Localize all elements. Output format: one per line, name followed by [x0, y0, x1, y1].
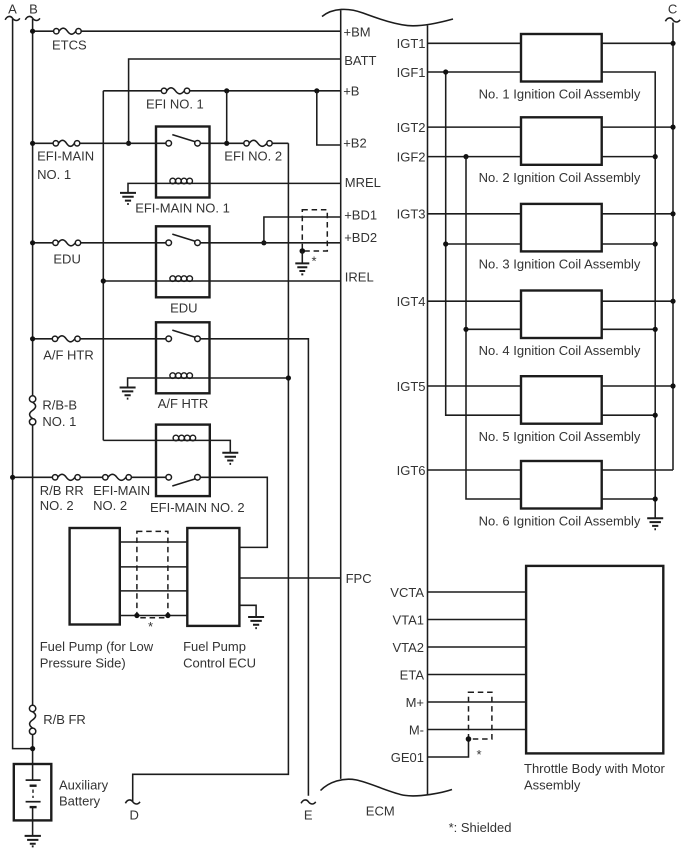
node junction B EFI-MAIN NO.1 — [30, 141, 35, 146]
ignition coil U5 — [479, 376, 641, 444]
svg-text:Auxiliary: Auxiliary — [59, 777, 109, 792]
svg-text:E: E — [304, 808, 313, 823]
wire coil3 IGF row — [446, 243, 656, 245]
node junction B EDU — [30, 240, 35, 245]
svg-text:IREL: IREL — [345, 270, 374, 285]
shield box BD1/BD2 — [300, 210, 328, 269]
fuse EFI-MAIN NO.1 — [37, 140, 94, 182]
svg-text:Throttle Body with Motor: Throttle Body with Motor — [524, 761, 666, 776]
relay A/F HTR — [156, 322, 210, 411]
svg-text:ECM: ECM — [366, 804, 395, 819]
wire GE01 row — [428, 739, 469, 757]
fuse EFI-MAIN NO. 2 — [93, 474, 150, 513]
svg-text:No. 1 Ignition Coil Assembly: No. 1 Ignition Coil Assembly — [479, 86, 641, 101]
node D — [125, 800, 140, 823]
node junction battery feed — [30, 746, 35, 751]
svg-text:EFI NO. 1: EFI NO. 1 — [146, 96, 204, 111]
svg-text:IGT3: IGT3 — [397, 207, 426, 222]
relay EFI-MAIN NO.1 — [135, 127, 230, 216]
wire EFI-MAIN NO.2 coil row — [103, 440, 230, 452]
svg-text:EFI-MAIN: EFI-MAIN — [93, 483, 150, 498]
wire EFI NO.1 feed vertical — [102, 91, 104, 441]
wire M+ row — [428, 701, 527, 703]
shield box fuel pump — [134, 531, 170, 634]
svg-text:NO. 2: NO. 2 — [93, 498, 127, 513]
wire EDU row (+BD2) — [33, 242, 341, 244]
battery Auxiliary Battery — [14, 764, 109, 835]
wire R/B RR row — [13, 477, 268, 547]
svg-text:No. 2 Ignition Coil Assembly: No. 2 Ignition Coil Assembly — [479, 170, 641, 185]
svg-text:Battery: Battery — [59, 793, 101, 808]
svg-text:EFI-MAIN NO. 2: EFI-MAIN NO. 2 — [150, 500, 245, 515]
svg-text:IGT6: IGT6 — [397, 463, 426, 478]
svg-text:No. 6 Ignition Coil Assembly: No. 6 Ignition Coil Assembly — [479, 514, 641, 529]
throttle body box — [524, 566, 666, 793]
svg-text:IGT4: IGT4 — [397, 294, 426, 309]
ground EFI-MAIN NO.2 coil — [222, 453, 238, 464]
svg-text:NO. 2: NO. 2 — [40, 498, 74, 513]
wire VCTA row — [428, 591, 527, 593]
node E — [301, 800, 316, 823]
wire +BD1 row — [264, 217, 341, 243]
svg-text:A: A — [8, 1, 17, 16]
wire VTA2 row — [428, 646, 527, 648]
svg-text:B: B — [29, 1, 38, 16]
node junction +B/+B2 drop — [314, 88, 319, 93]
wire IGF1 row — [428, 71, 522, 73]
svg-text:BATT: BATT — [344, 53, 376, 68]
fusible link R/B-B NO. 1 — [29, 396, 77, 429]
svg-text:*: * — [312, 254, 317, 269]
fuel pump box — [40, 528, 154, 671]
fuse A/F HTR — [43, 336, 94, 363]
shield box throttle motor — [466, 692, 492, 762]
ECM connector outline — [321, 9, 454, 818]
wire IGT1 row — [428, 42, 674, 44]
svg-text:EDU: EDU — [53, 251, 80, 266]
svg-text:Fuel Pump (for Low: Fuel Pump (for Low — [40, 639, 154, 654]
relay EFI-MAIN NO.2 — [150, 425, 245, 516]
node junction EDU coil feed — [101, 278, 106, 283]
fuse ETCS — [52, 28, 87, 52]
node C — [665, 1, 680, 22]
svg-text:EFI-MAIN NO. 1: EFI-MAIN NO. 1 — [135, 200, 230, 215]
wire VTA1 row — [428, 619, 527, 621]
node junction A/F HTR coil to D-line — [286, 375, 291, 380]
fuel pump control ECU box — [183, 528, 256, 671]
svg-text:C: C — [668, 1, 677, 16]
svg-text:EFI NO. 2: EFI NO. 2 — [224, 148, 282, 163]
wire IGF1 vertical — [446, 72, 521, 415]
svg-text:No. 5 Ignition Coil Assembly: No. 5 Ignition Coil Assembly — [479, 429, 641, 444]
ground shield BD — [295, 263, 309, 274]
ignition coil U3 — [479, 204, 641, 272]
svg-text:NO. 1: NO. 1 — [42, 414, 76, 429]
ground battery — [25, 836, 41, 847]
wire fuel pump links — [120, 542, 188, 616]
svg-text:IGT1: IGT1 — [397, 36, 426, 51]
wire A/F HTR coil row — [128, 378, 289, 387]
ignition coil U1 — [479, 34, 641, 101]
svg-text:+BD2: +BD2 — [344, 230, 377, 245]
svg-text:EDU: EDU — [170, 300, 197, 315]
svg-text:No. 4 Ignition Coil Assembly: No. 4 Ignition Coil Assembly — [479, 343, 641, 358]
svg-text:ETCS: ETCS — [52, 37, 87, 52]
wire IGF2 row — [428, 156, 656, 158]
svg-text:IGF1: IGF1 — [397, 65, 426, 80]
wire FPC row — [239, 577, 340, 579]
wire IGT4 row — [428, 300, 674, 302]
wire coil5 IGF row — [602, 414, 656, 416]
wire +B row — [103, 90, 340, 92]
svg-text:No. 3 Ignition Coil Assembly: No. 3 Ignition Coil Assembly — [479, 257, 641, 272]
ground fuel pump control ECU — [239, 605, 256, 616]
ignition coil U4 — [479, 291, 641, 359]
wire EFI NO.2 output down to D — [133, 143, 289, 802]
node junction B-ETCS — [30, 29, 35, 34]
wire B-line vertical — [32, 19, 34, 764]
wire A-line vertical — [13, 19, 33, 749]
fuse EFI NO. 1 — [146, 88, 204, 112]
svg-text:M-: M- — [409, 722, 424, 737]
wire BATT row — [129, 59, 341, 143]
wire ignition ground bus — [602, 72, 656, 518]
relay EDU — [156, 226, 210, 315]
svg-text:MREL: MREL — [345, 175, 381, 190]
svg-text:Fuel Pump: Fuel Pump — [183, 639, 246, 654]
node junction switch-out — [224, 141, 229, 146]
wire +B2 jog — [317, 91, 341, 145]
svg-text:VCTA: VCTA — [390, 585, 424, 600]
svg-text:+B: +B — [343, 83, 359, 98]
ground A/F HTR coil — [120, 388, 136, 399]
ground EFI-MAIN NO.1 coil — [120, 193, 136, 204]
wire MREL row with relay coil — [128, 183, 341, 192]
svg-text:ETA: ETA — [400, 667, 425, 682]
wire C-line vertical — [672, 23, 674, 471]
svg-text:Assembly: Assembly — [524, 778, 581, 793]
fusible link R/B FR — [29, 705, 85, 734]
node junction +BD1/+BD2 — [261, 240, 266, 245]
svg-text:NO. 1: NO. 1 — [37, 167, 71, 182]
svg-text:*: Shielded: *: Shielded — [449, 820, 512, 835]
node B — [25, 1, 40, 20]
svg-text:A/F HTR: A/F HTR — [43, 348, 94, 363]
svg-text:Control ECU: Control ECU — [183, 656, 256, 671]
svg-text:*: * — [148, 619, 153, 634]
wire IGT6 row — [428, 469, 674, 471]
svg-text:Pressure Side): Pressure Side) — [40, 656, 126, 671]
wire IREL row with EDU coil — [103, 280, 340, 282]
svg-text:IGT2: IGT2 — [397, 120, 426, 135]
wire IGT2 row — [428, 126, 674, 128]
wire ETA row — [428, 674, 527, 676]
node junction BATT drop — [126, 141, 131, 146]
svg-text:R/B RR: R/B RR — [40, 483, 84, 498]
svg-text:VTA1: VTA1 — [392, 612, 424, 627]
node A — [5, 1, 20, 20]
svg-text:+BD1: +BD1 — [344, 208, 377, 223]
svg-text:A/F HTR: A/F HTR — [158, 396, 209, 411]
svg-text:IGT5: IGT5 — [397, 379, 426, 394]
svg-text:D: D — [130, 808, 139, 823]
ignition coil U6 — [479, 461, 641, 529]
svg-text:+B2: +B2 — [343, 136, 367, 151]
wire drop +B to switch out — [226, 91, 228, 144]
node junction B A/F HTR — [30, 336, 35, 341]
wire IGT5 row — [428, 385, 674, 387]
svg-text:R/B FR: R/B FR — [43, 712, 86, 727]
svg-text:R/B-B: R/B-B — [42, 398, 77, 413]
wire coil6 IGF row — [602, 498, 656, 500]
ignition coil U2 — [479, 117, 641, 185]
wire IGT3 row — [428, 213, 674, 215]
wire IGF2 vertical — [466, 157, 521, 499]
svg-text:GE01: GE01 — [391, 750, 424, 765]
svg-text:EFI-MAIN: EFI-MAIN — [37, 148, 94, 163]
wire EFI-MAIN NO.1 row — [33, 142, 289, 144]
svg-text:M+: M+ — [406, 695, 424, 710]
wire coil4 IGF row — [466, 328, 655, 330]
svg-text:+BM: +BM — [344, 25, 371, 40]
svg-text:*: * — [477, 747, 482, 762]
svg-text:IGF2: IGF2 — [397, 149, 426, 164]
svg-text:VTA2: VTA2 — [392, 640, 424, 655]
fuse EDU — [53, 240, 81, 266]
node junction A-line R/B RR — [10, 475, 15, 480]
node junction +B/EFI NO.2 drop — [224, 88, 229, 93]
ground ignition bus — [647, 518, 663, 529]
wire A/F HTR row — [33, 339, 309, 796]
fuse R/B RR NO. 2 — [40, 474, 84, 513]
fuse EFI NO. 2 — [224, 140, 282, 163]
svg-text:FPC: FPC — [346, 571, 372, 586]
wire ETCS row (+BM) — [33, 30, 341, 32]
wire M- row — [428, 729, 527, 731]
